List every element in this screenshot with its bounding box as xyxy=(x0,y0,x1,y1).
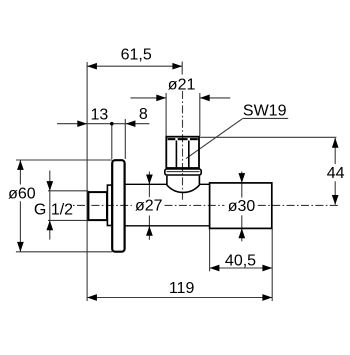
wire: extension line rosette bottom for dim o60 xyxy=(16,251,112,253)
svg-text:ø27: ø27 xyxy=(135,198,163,215)
hex head SW19 xyxy=(166,137,199,168)
wire: dimension line o60 lower segment xyxy=(19,201,21,251)
wire: dimension line 44 upper segment xyxy=(334,138,336,164)
svg-text:ø60: ø60 xyxy=(8,185,36,202)
collar between thread and rosette xyxy=(107,185,112,225)
svg-text:ø21: ø21 xyxy=(168,76,196,93)
wire: SW19 leader diagonal xyxy=(186,118,243,158)
node: dim o27 arrowheads xyxy=(146,175,153,185)
wire: dimension line o27 lower segment xyxy=(148,216,150,240)
wire: extension line at valve vertical axis for dim 61,5 xyxy=(181,62,183,75)
wire: dimension line 40,5 xyxy=(210,267,273,269)
wire: dimension line o30 lower segment xyxy=(241,215,243,241)
outlet spout o30 xyxy=(210,183,272,229)
node: dim o30 arrowheads xyxy=(238,173,245,183)
node: vertical centerline of valve head xyxy=(182,91,184,200)
wire: wall-plane extension line xyxy=(86,62,88,301)
wire: dimension line G 1/2 xyxy=(49,171,51,240)
node: dim G 1/2 arrowheads xyxy=(46,181,53,191)
wall rosette o60 xyxy=(112,160,124,252)
wire: SW19 leader underline xyxy=(243,117,288,119)
svg-text:ø30: ø30 xyxy=(228,198,256,215)
wire: extension line thread top xyxy=(48,190,88,192)
svg-text:40,5: 40,5 xyxy=(225,252,256,269)
wire: extension line outlet right end xyxy=(271,228,273,301)
node: dim 40,5 arrowheads xyxy=(210,265,220,272)
wire: dimension line 13 / 8 xyxy=(57,123,149,125)
bonnet dome xyxy=(167,176,200,193)
G 1/2 threaded inlet nipple xyxy=(88,192,107,220)
wire: extension line hex right flank xyxy=(199,93,201,136)
node: horizontal centerline segment left xyxy=(73,204,132,206)
node: horizontal centerline segment right xyxy=(258,204,338,206)
wire: dimension line o21 left tail xyxy=(131,97,167,99)
wire: extension line from knob top for dim 44 xyxy=(200,136,336,138)
node: dim 61,5 arrowheads xyxy=(87,63,97,70)
svg-text:44: 44 xyxy=(327,165,345,182)
node: dim o21 arrowheads xyxy=(156,95,166,102)
wire: extension line rosette front face xyxy=(111,125,113,159)
svg-text:13: 13 xyxy=(91,107,109,124)
wire: dimension line o27 upper segment xyxy=(148,172,150,198)
wire: extension line rosette top for dim o60 xyxy=(16,159,112,161)
svg-text:SW19: SW19 xyxy=(243,103,287,120)
node: dim 119 arrowheads xyxy=(87,294,97,301)
wire: dimension line o30 upper segment xyxy=(241,172,243,198)
knob base ring xyxy=(165,169,201,175)
valve body cylinder o27 xyxy=(125,184,210,226)
wire: extension line hex left flank xyxy=(165,93,167,136)
svg-text:8: 8 xyxy=(139,106,148,123)
wire: dimension line 119 xyxy=(87,297,272,299)
wire: dimension line o60 upper segment xyxy=(19,160,21,184)
node: horizontal centerline segment middle xyxy=(165,204,225,206)
wire: extension line outlet left for dim 40,5 xyxy=(209,228,211,271)
node: dim 44 arrowheads xyxy=(332,138,339,148)
svg-text:61,5: 61,5 xyxy=(121,47,152,64)
wire: dimension line 44 lower segment xyxy=(334,181,336,204)
wire: dimension line o21 right tail xyxy=(200,97,230,99)
wire: dimension line 61,5 xyxy=(87,65,182,67)
node: dim o60 arrowheads xyxy=(17,160,24,170)
svg-text:G 1/2: G 1/2 xyxy=(34,201,73,218)
svg-text:119: 119 xyxy=(169,280,195,297)
wire: extension line rosette back face xyxy=(124,119,126,159)
node: dim 13/8 arrowheads and tick dot xyxy=(77,120,87,127)
wire: extension line thread bottom xyxy=(48,219,88,221)
